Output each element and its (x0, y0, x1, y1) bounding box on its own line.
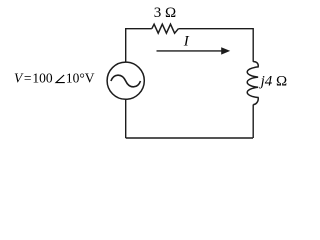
svg-text:j4 Ω: j4 Ω (259, 73, 288, 89)
resistor R (3 ohm) zigzag (152, 24, 179, 33)
svg-text:10°V: 10°V (66, 71, 95, 86)
wire top-right segment (178, 28, 253, 30)
svg-text:V=100: V=100 (14, 71, 53, 86)
angle symbol (56, 75, 65, 83)
svg-text:I: I (183, 34, 190, 50)
wire left vertical upper (125, 28, 127, 62)
wire left vertical lower (125, 99, 127, 138)
ac voltage source V circle (107, 62, 144, 99)
current arrow I (157, 50, 222, 52)
wire bottom (126, 137, 253, 139)
wire top-left segment (126, 28, 152, 30)
wire right vertical lower (252, 105, 254, 139)
inductor L (j4 ohm) coil (247, 62, 258, 105)
ac source sine symbol (111, 75, 141, 87)
svg-text:3 Ω: 3 Ω (154, 5, 176, 21)
wire right vertical upper (252, 28, 254, 62)
